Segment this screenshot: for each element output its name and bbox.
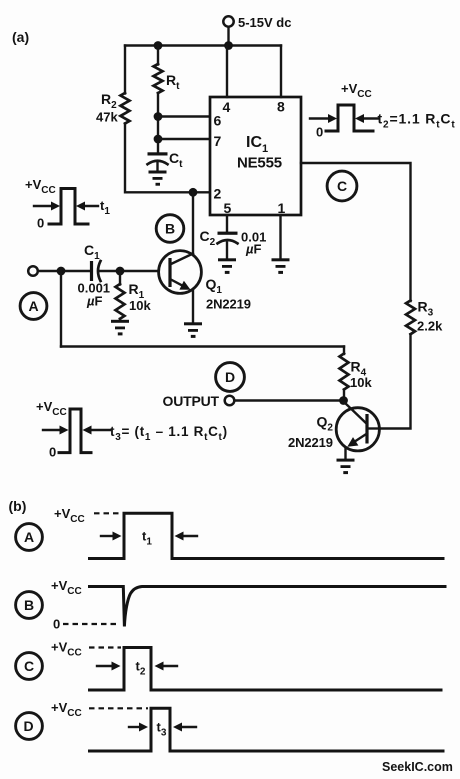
label t1 row A xyxy=(142,529,152,548)
label 0 row B xyxy=(53,617,60,632)
arrow right row C xyxy=(155,662,178,671)
pulse t1 left arrow xyxy=(34,202,60,211)
waveform D trace xyxy=(90,708,444,751)
pulse symbol t1 waveform xyxy=(49,189,88,225)
wire Q1 emitter xyxy=(192,290,194,323)
dashed zero level row B xyxy=(63,623,118,625)
svg-text:5: 5 xyxy=(224,200,232,216)
svg-text:µF: µF xyxy=(86,294,103,309)
label 10k xyxy=(129,298,151,313)
pulse t3 left arrow xyxy=(43,426,69,435)
label C1 xyxy=(84,242,100,262)
label Ct xyxy=(169,150,183,170)
node D waveform row xyxy=(16,713,43,740)
pin 4 label xyxy=(223,99,231,115)
node C xyxy=(327,171,357,201)
label t2 row C xyxy=(136,659,146,678)
svg-text:C: C xyxy=(24,658,34,674)
svg-text:47k: 47k xyxy=(96,110,118,125)
svg-text:+VCC: +VCC xyxy=(51,700,82,719)
junction Rt top xyxy=(154,41,163,50)
svg-text:Rt: Rt xyxy=(166,72,180,92)
watermark SeekIC.com xyxy=(382,760,453,774)
transistor Q1 xyxy=(159,251,202,294)
svg-text:NE555: NE555 xyxy=(237,155,282,172)
junction input node xyxy=(57,267,66,276)
svg-text:0: 0 xyxy=(49,445,56,460)
node A waveform row xyxy=(16,524,43,551)
wire input to C1 xyxy=(38,270,90,272)
label 0.001 uF xyxy=(78,281,111,309)
wire rail to Rt xyxy=(157,46,159,65)
pulse symbol t2 waveform xyxy=(326,105,373,131)
svg-text:7: 7 xyxy=(214,133,222,149)
pulse symbol t3 +Vcc label xyxy=(36,399,67,418)
svg-text:C: C xyxy=(337,178,347,194)
junction R1 top xyxy=(116,267,125,276)
svg-text:10k: 10k xyxy=(129,298,151,313)
svg-text:4: 4 xyxy=(223,99,231,115)
wire output to junction xyxy=(235,399,344,401)
resistor R4 xyxy=(340,347,349,401)
transistor Q2 xyxy=(336,402,379,451)
svg-text:10k: 10k xyxy=(350,375,372,390)
pulse t2 right arrow xyxy=(355,114,378,123)
wire pin 8 xyxy=(280,46,282,98)
dashed Vcc level row C xyxy=(89,646,121,648)
junction R4 base output xyxy=(339,396,348,405)
label +Vcc row A xyxy=(54,506,85,525)
waveform B trace xyxy=(90,587,446,627)
label +Vcc row D xyxy=(51,700,82,719)
pin 7 label xyxy=(214,133,222,149)
pulse t1 zero label xyxy=(37,216,44,231)
resistor R1 xyxy=(116,271,125,320)
dashed Vcc level row A xyxy=(94,512,124,514)
svg-text:Ct: Ct xyxy=(169,150,183,170)
svg-text:R2: R2 xyxy=(101,91,117,111)
wire pin 7 xyxy=(158,138,210,140)
ground C2 xyxy=(218,258,236,274)
pulse t2 zero label xyxy=(316,125,323,140)
label 47k xyxy=(96,110,118,125)
ground Q2 xyxy=(337,459,355,475)
capacitor C2 xyxy=(218,232,238,259)
op-amp U1 IC1 NE555 box xyxy=(210,97,301,215)
pulse t1 right arrow xyxy=(76,202,98,211)
label +Vcc row B xyxy=(51,578,82,597)
wire Q2 emitter xyxy=(344,448,346,459)
label 2N2219 (Q2) xyxy=(288,435,333,450)
capacitor Ct xyxy=(148,152,168,171)
wire node A to R4 xyxy=(61,345,344,347)
label Q1 xyxy=(206,276,223,296)
output terminal xyxy=(225,396,235,406)
node B waveform row xyxy=(16,592,43,619)
svg-text:0: 0 xyxy=(316,125,323,140)
label 0.01 uF xyxy=(241,230,266,257)
pulse t3 right arrow xyxy=(83,426,111,435)
pulse symbol t2 +Vcc label xyxy=(341,81,372,100)
wire R3 to Q2 collector xyxy=(380,334,411,428)
junction supply xyxy=(224,41,233,50)
svg-text:6: 6 xyxy=(214,113,222,129)
svg-text:Q2: Q2 xyxy=(317,414,334,434)
svg-text:2N2219: 2N2219 xyxy=(206,297,251,312)
svg-text:D: D xyxy=(225,369,235,385)
svg-text:1: 1 xyxy=(278,200,286,216)
resistor Rt xyxy=(154,64,163,93)
svg-text:µF: µF xyxy=(245,242,262,257)
svg-text:D: D xyxy=(24,718,34,734)
wire Rt to Ct xyxy=(157,93,159,152)
junction pin7 xyxy=(154,135,163,144)
label t2 = 1.1 RtCt xyxy=(378,111,456,131)
dashed Vcc level row D xyxy=(89,707,148,709)
input terminal xyxy=(28,266,38,276)
wire node A down xyxy=(60,271,62,347)
label 10k (R4) xyxy=(350,375,372,390)
label R4 xyxy=(351,359,367,379)
node C waveform row xyxy=(16,653,43,680)
wire Vcc rail xyxy=(125,44,281,46)
pin 5 label xyxy=(224,200,232,216)
pin 6 label xyxy=(214,113,222,129)
label (b) xyxy=(9,498,27,514)
arrow left row D xyxy=(129,723,148,732)
label +Vcc row C xyxy=(51,640,82,659)
svg-text:(b): (b) xyxy=(9,498,27,514)
label OUTPUT xyxy=(163,393,220,409)
label R2 xyxy=(101,91,117,111)
svg-text:(a): (a) xyxy=(12,29,29,45)
junction pin6 xyxy=(154,112,163,121)
label Q2 xyxy=(317,414,334,434)
pulse t3 zero label xyxy=(49,445,56,460)
svg-text:B: B xyxy=(24,597,34,613)
wire pin 5 xyxy=(226,215,228,233)
junction pin2 node xyxy=(189,188,198,197)
svg-text:C2: C2 xyxy=(200,228,216,248)
resistor R2 xyxy=(121,93,130,124)
svg-text:5-15V dc: 5-15V dc xyxy=(238,15,291,30)
supply terminal 5-15V dc xyxy=(223,16,233,26)
label R3 xyxy=(418,299,434,319)
label Rt xyxy=(166,72,180,92)
pulse symbol t3 waveform xyxy=(59,409,91,453)
label IC1 xyxy=(246,134,268,155)
pulse symbol t1 +Vcc label xyxy=(25,177,56,196)
ground R1 xyxy=(111,320,129,336)
wire pin 6 xyxy=(158,115,210,117)
svg-text:Q1: Q1 xyxy=(206,276,223,296)
svg-text:t3: t3 xyxy=(157,720,167,739)
svg-text:A: A xyxy=(24,529,34,545)
svg-text:+VCC: +VCC xyxy=(25,177,56,196)
arrow right row A xyxy=(175,532,198,541)
resistor R3 xyxy=(406,301,415,335)
label NE555 xyxy=(237,155,282,172)
wire R2 bottom to pin2 xyxy=(125,124,210,193)
label t1 xyxy=(100,198,110,217)
pulse t2 left arrow xyxy=(310,114,337,123)
label t3 row D xyxy=(157,720,167,739)
ground Ct xyxy=(149,171,167,186)
svg-text:C1: C1 xyxy=(84,242,100,262)
node A xyxy=(20,293,47,320)
label C2 xyxy=(200,228,216,248)
svg-text:R3: R3 xyxy=(418,299,434,319)
svg-text:+VCC: +VCC xyxy=(36,399,67,418)
svg-text:2N2219: 2N2219 xyxy=(288,435,333,450)
svg-text:+VCC: +VCC xyxy=(51,640,82,659)
pin 1 label xyxy=(278,200,286,216)
label 2N2219 (Q1) xyxy=(206,297,251,312)
svg-text:8: 8 xyxy=(277,99,285,115)
svg-text:t2: t2 xyxy=(136,659,146,678)
svg-text:A: A xyxy=(29,298,39,314)
wire Q1 collector xyxy=(192,192,194,254)
capacitor C1 xyxy=(92,261,101,281)
arrow left row C xyxy=(97,662,121,671)
arrow left row A xyxy=(101,532,122,541)
svg-text:2.2k: 2.2k xyxy=(417,319,443,334)
wire pin 1 xyxy=(279,215,281,259)
svg-text:t2=1.1 RtCt: t2=1.1 RtCt xyxy=(378,111,456,131)
svg-text:t1: t1 xyxy=(100,198,110,217)
wire pin 4 xyxy=(226,46,228,98)
svg-text:0: 0 xyxy=(53,617,60,632)
svg-text:SeekIC.com: SeekIC.com xyxy=(382,760,453,774)
label 5-15V dc xyxy=(238,15,291,30)
arrow right row D xyxy=(173,723,196,732)
svg-text:+VCC: +VCC xyxy=(341,81,372,100)
waveform A trace xyxy=(90,513,444,558)
ground Q1 xyxy=(184,322,202,338)
svg-text:2: 2 xyxy=(214,186,222,202)
wire rail to R2 xyxy=(124,46,126,94)
ground pin1 xyxy=(272,258,290,274)
wire supply to rail xyxy=(227,27,229,46)
label R1 xyxy=(129,281,145,301)
label (a) xyxy=(12,29,29,45)
wire pin 3 to R3 xyxy=(301,163,411,301)
wire C1 to Q1 base xyxy=(100,270,170,272)
label 2.2k xyxy=(417,319,443,334)
svg-text:B: B xyxy=(165,221,175,237)
svg-text:t1: t1 xyxy=(142,529,152,548)
svg-text:+VCC: +VCC xyxy=(51,578,82,597)
label t3 = (t1 - 1.1 RtCt) xyxy=(110,424,228,443)
node D xyxy=(216,363,245,392)
pin 8 label xyxy=(277,99,285,115)
svg-text:+VCC: +VCC xyxy=(54,506,85,525)
node B xyxy=(156,215,184,243)
svg-text:OUTPUT: OUTPUT xyxy=(163,393,220,409)
pin 2 label xyxy=(214,186,222,202)
svg-text:t3= (t1 – 1.1 RtCt): t3= (t1 – 1.1 RtCt) xyxy=(110,424,228,443)
svg-text:0: 0 xyxy=(37,216,44,231)
waveform C trace xyxy=(90,648,442,691)
